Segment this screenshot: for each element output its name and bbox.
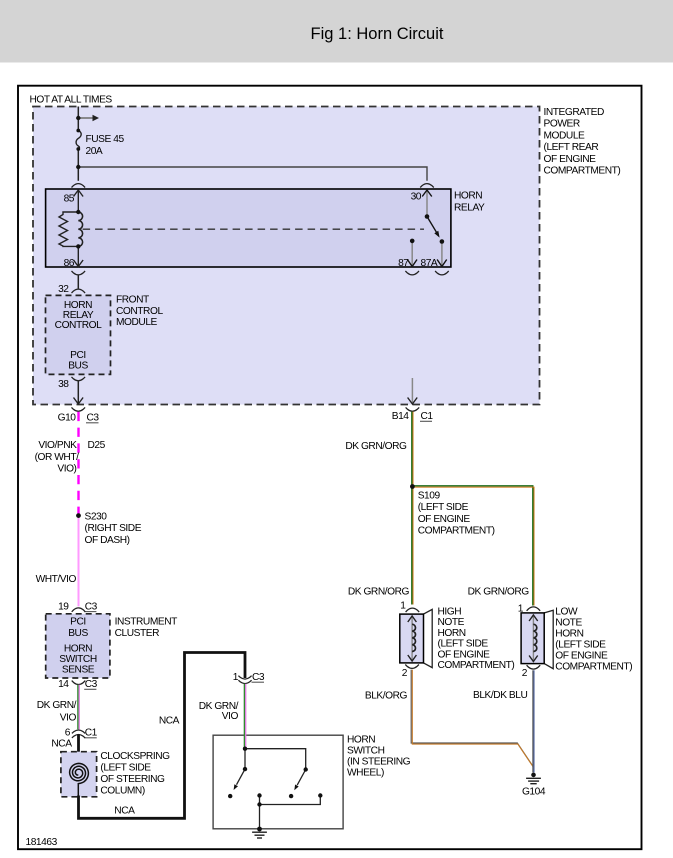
- svg-text:DK GRN/: DK GRN/: [37, 700, 77, 711]
- svg-text:NCA: NCA: [51, 738, 72, 749]
- svg-text:PCI: PCI: [70, 617, 86, 628]
- svg-text:VIO: VIO: [222, 711, 239, 722]
- svg-text:CLOCKSPRING: CLOCKSPRING: [100, 751, 170, 762]
- svg-text:(LEFT SIDE: (LEFT SIDE: [555, 640, 606, 651]
- svg-text:COLUMN): COLUMN): [100, 786, 144, 797]
- svg-text:OF ENGINE: OF ENGINE: [555, 651, 608, 662]
- svg-text:WHT/VIO: WHT/VIO: [36, 574, 77, 585]
- svg-text:OF ENGINE: OF ENGINE: [544, 154, 597, 165]
- svg-text:1: 1: [400, 601, 406, 612]
- svg-text:(LEFT SIDE: (LEFT SIDE: [100, 763, 151, 774]
- svg-text:S109: S109: [418, 491, 441, 502]
- svg-text:RELAY: RELAY: [454, 202, 485, 213]
- svg-text:BLK/ORG: BLK/ORG: [365, 690, 408, 701]
- svg-text:HIGH: HIGH: [438, 607, 462, 618]
- svg-text:CONTROL: CONTROL: [55, 320, 102, 331]
- svg-text:HOT AT ALL TIMES: HOT AT ALL TIMES: [30, 95, 113, 106]
- svg-text:C3: C3: [87, 413, 100, 424]
- svg-text:MODULE: MODULE: [544, 130, 586, 141]
- svg-text:OF ENGINE: OF ENGINE: [418, 514, 471, 525]
- svg-text:C3: C3: [85, 679, 98, 690]
- svg-text:OF STEERING: OF STEERING: [100, 774, 165, 785]
- svg-text:(LEFT SIDE: (LEFT SIDE: [438, 639, 489, 650]
- svg-text:D25: D25: [88, 440, 106, 451]
- svg-text:FUSE 45: FUSE 45: [86, 134, 125, 145]
- svg-text:BUS: BUS: [68, 361, 88, 372]
- svg-text:MODULE: MODULE: [116, 317, 158, 328]
- svg-text:CLUSTER: CLUSTER: [115, 628, 159, 639]
- svg-text:COMPARTMENT): COMPARTMENT): [544, 166, 621, 177]
- svg-text:(LEFT SIDE: (LEFT SIDE: [418, 502, 469, 513]
- svg-text:SWITCH: SWITCH: [59, 654, 97, 665]
- svg-text:(RIGHT SIDE: (RIGHT SIDE: [85, 523, 142, 534]
- svg-text:2: 2: [402, 668, 408, 679]
- svg-text:C3: C3: [85, 601, 98, 612]
- svg-text:HORN: HORN: [454, 191, 482, 202]
- svg-text:VIO: VIO: [60, 712, 77, 723]
- svg-text:HORN: HORN: [555, 629, 583, 640]
- svg-text:BLK/DK BLU: BLK/DK BLU: [473, 690, 527, 701]
- svg-text:86: 86: [64, 258, 75, 269]
- svg-text:(LEFT REAR: (LEFT REAR: [544, 142, 599, 153]
- svg-text:87A: 87A: [421, 258, 438, 269]
- svg-text:LOW: LOW: [555, 607, 578, 618]
- svg-text:SWITCH: SWITCH: [347, 746, 385, 757]
- svg-text:COMPARTMENT): COMPARTMENT): [555, 662, 632, 673]
- svg-text:Fig 1: Horn Circuit: Fig 1: Horn Circuit: [311, 25, 444, 43]
- svg-text:20A: 20A: [86, 146, 103, 157]
- svg-text:OF ENGINE: OF ENGINE: [438, 649, 491, 660]
- svg-text:38: 38: [58, 379, 69, 390]
- svg-text:DK GRN/ORG: DK GRN/ORG: [348, 586, 410, 597]
- svg-text:NOTE: NOTE: [438, 617, 465, 628]
- svg-text:OF DASH): OF DASH): [85, 535, 130, 546]
- svg-text:181463: 181463: [26, 837, 58, 848]
- svg-text:INSTRUMENT: INSTRUMENT: [115, 617, 178, 628]
- svg-text:WHEEL): WHEEL): [347, 768, 384, 779]
- svg-text:INTEGRATED: INTEGRATED: [544, 107, 604, 118]
- svg-text:HORN: HORN: [347, 735, 375, 746]
- svg-text:2: 2: [522, 668, 528, 679]
- svg-text:VIO/PNK: VIO/PNK: [38, 440, 77, 451]
- svg-text:NCA: NCA: [114, 806, 135, 817]
- svg-text:85: 85: [64, 194, 75, 205]
- svg-text:COMPARTMENT): COMPARTMENT): [438, 660, 515, 671]
- svg-text:C1: C1: [421, 411, 434, 422]
- svg-text:HORN: HORN: [438, 628, 466, 639]
- svg-text:32: 32: [58, 284, 69, 295]
- svg-text:POWER: POWER: [544, 119, 580, 130]
- svg-text:14: 14: [58, 679, 69, 690]
- svg-text:CONTROL: CONTROL: [116, 306, 163, 317]
- svg-text:BUS: BUS: [68, 628, 88, 639]
- svg-text:FRONT: FRONT: [116, 295, 149, 306]
- svg-text:(IN STEERING: (IN STEERING: [347, 757, 411, 768]
- svg-text:HORN: HORN: [64, 644, 92, 655]
- svg-text:G10: G10: [58, 413, 77, 424]
- svg-text:SENSE: SENSE: [62, 665, 95, 676]
- svg-text:S230: S230: [85, 512, 108, 523]
- svg-text:1: 1: [233, 672, 239, 683]
- svg-text:(OR WHT/: (OR WHT/: [35, 452, 80, 463]
- svg-text:DK GRN/ORG: DK GRN/ORG: [468, 586, 530, 597]
- svg-text:PCI: PCI: [70, 350, 86, 361]
- svg-text:C3: C3: [252, 672, 265, 683]
- svg-text:NCA: NCA: [159, 715, 180, 726]
- svg-text:C1: C1: [85, 728, 98, 739]
- svg-text:6: 6: [65, 728, 71, 739]
- svg-text:B14: B14: [392, 411, 410, 422]
- svg-text:DK GRN/ORG: DK GRN/ORG: [345, 441, 407, 452]
- svg-text:30: 30: [411, 192, 422, 203]
- svg-text:19: 19: [58, 601, 69, 612]
- svg-text:COMPARTMENT): COMPARTMENT): [418, 525, 495, 536]
- svg-text:G104: G104: [522, 787, 546, 798]
- svg-text:NOTE: NOTE: [555, 618, 582, 629]
- svg-text:VIO): VIO): [57, 464, 76, 475]
